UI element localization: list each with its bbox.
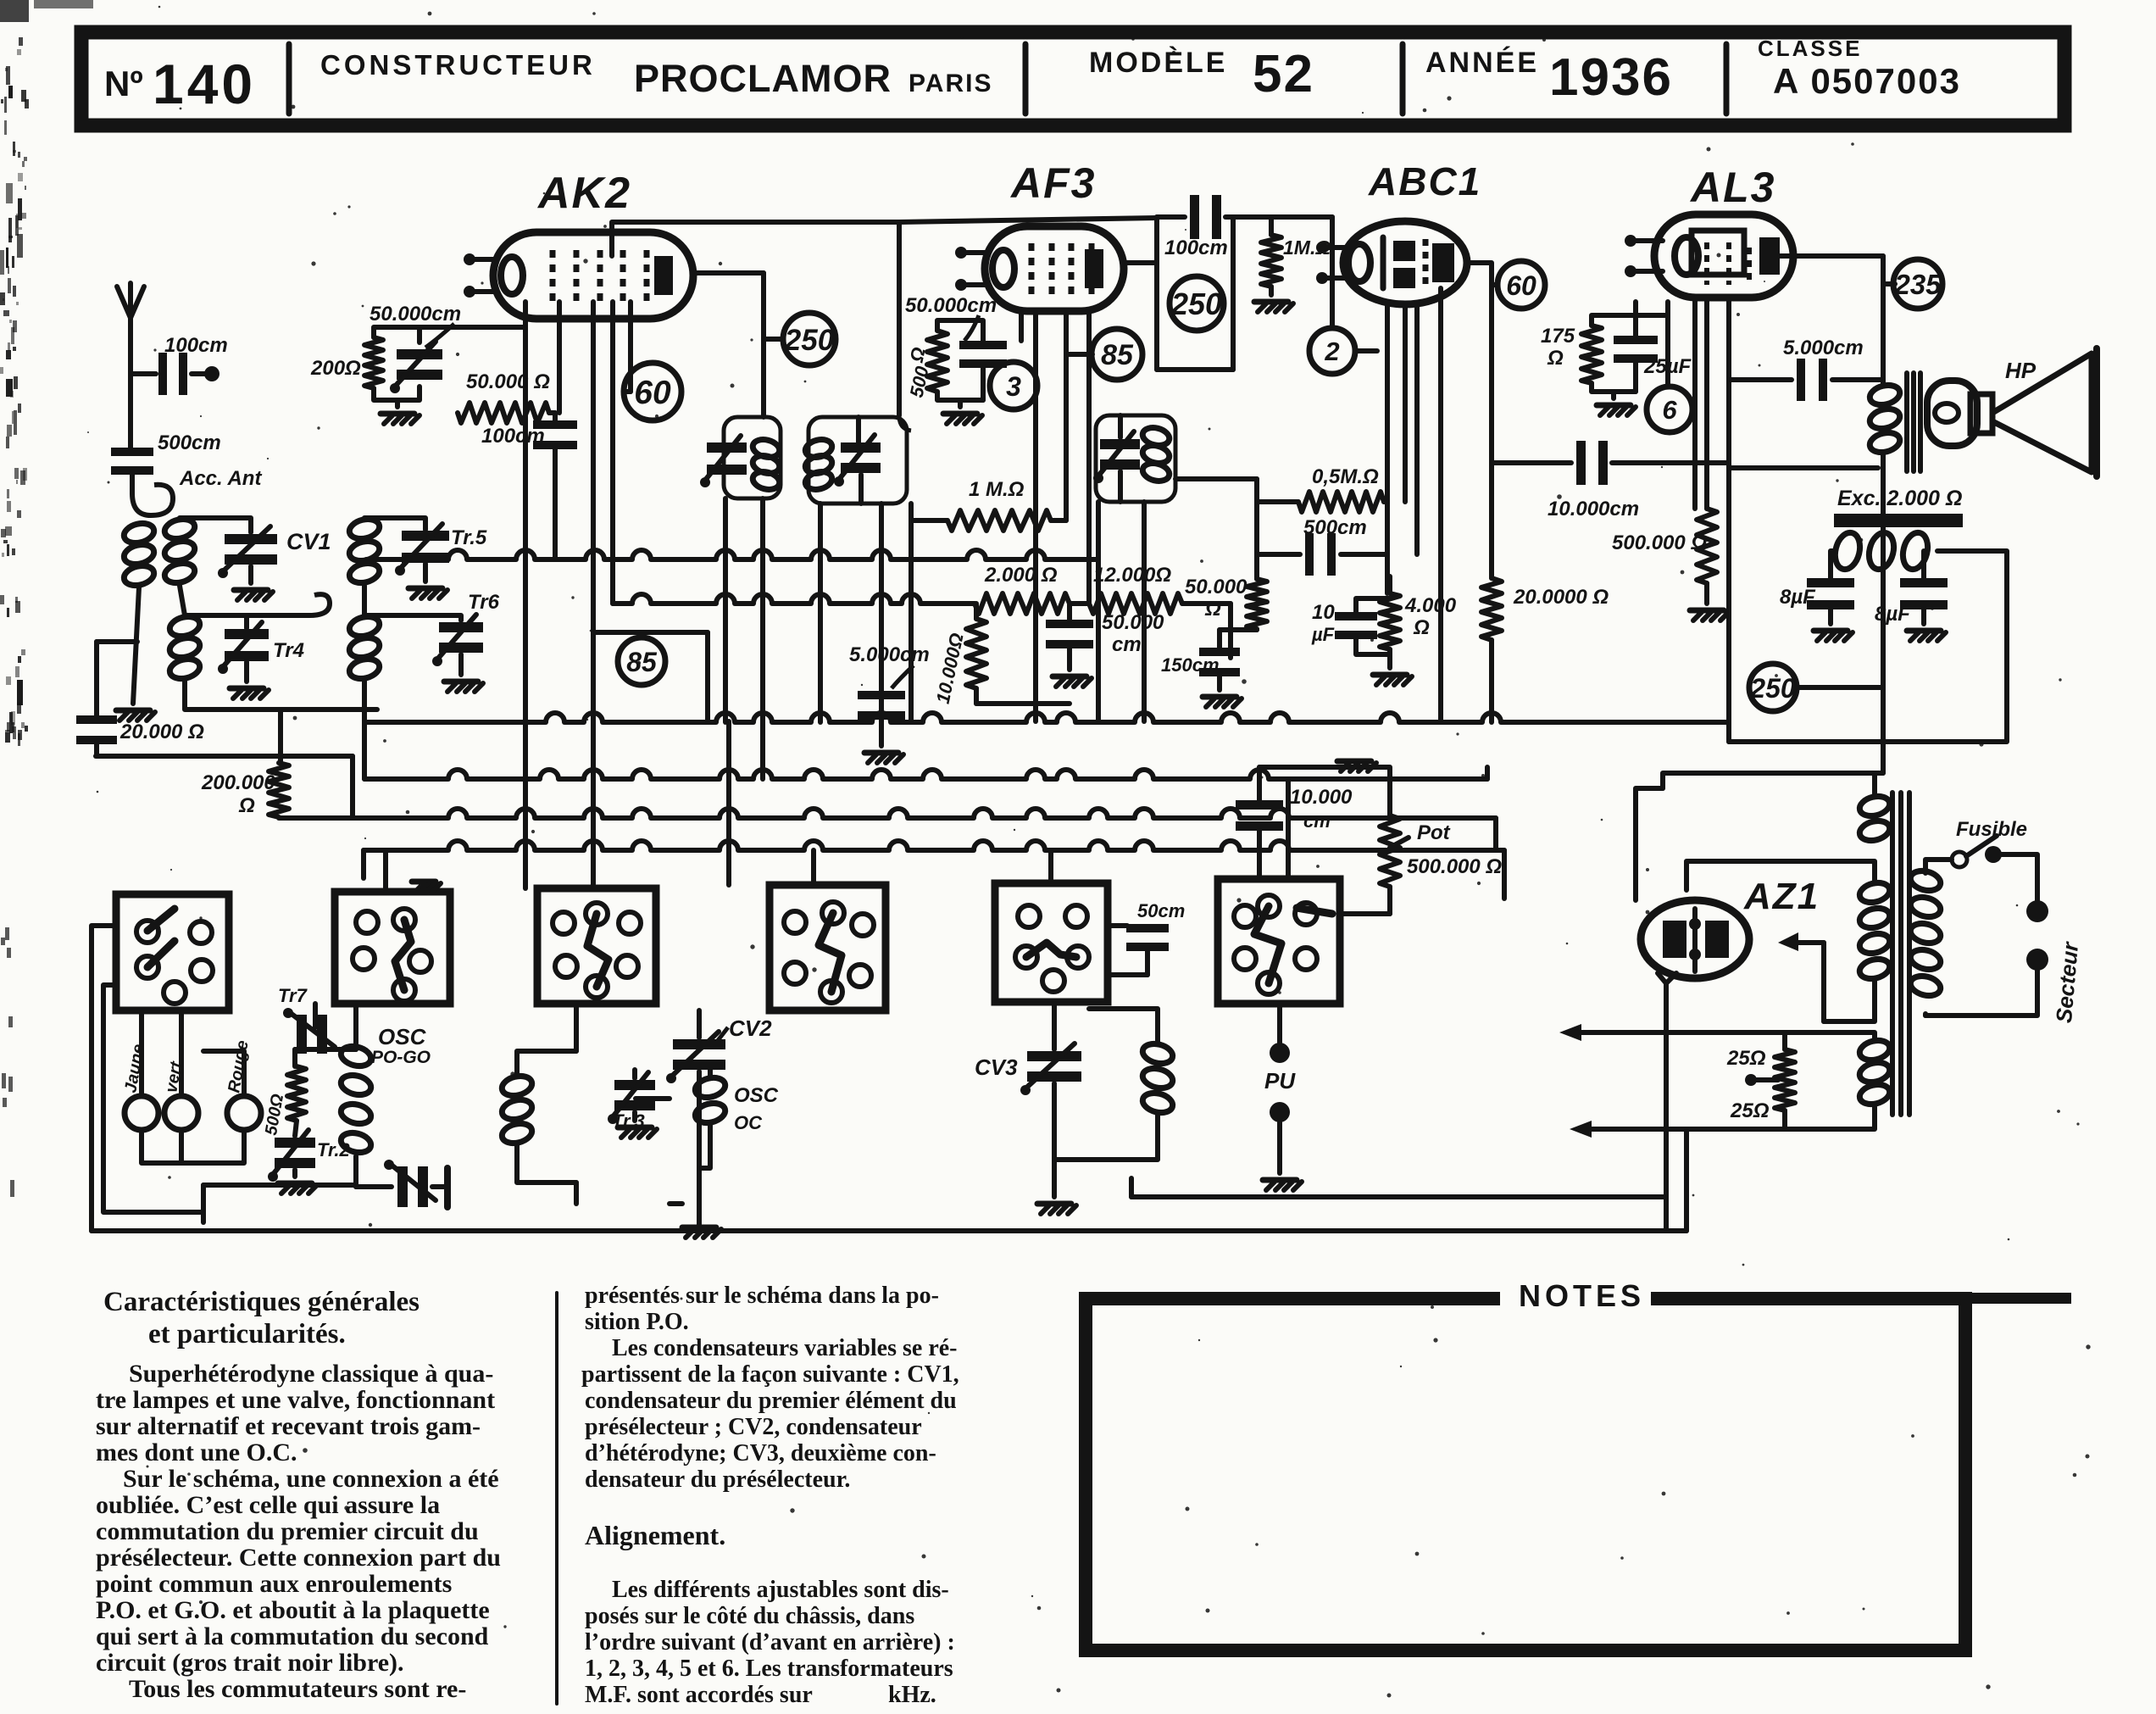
wire AF3 grid leads — [983, 310, 1089, 721]
resistor 50.000 ohm (AK2) — [458, 327, 555, 423]
field coil Exc. 2.000 ohm — [1831, 487, 1963, 578]
node 235 (AL3 plate) — [1893, 259, 1942, 309]
lamp jaune — [121, 1043, 158, 1130]
header text CLASSE A 0507003 — [1758, 36, 1961, 101]
wire hook preselector — [185, 594, 377, 763]
svg-text:20.0000 Ω: 20.0000 Ω — [1513, 586, 1609, 609]
svg-text:partissent de la façon suivant: partissent de la façon suivante : CV1, — [581, 1361, 959, 1388]
svg-text:OC: OC — [734, 1112, 763, 1133]
IF transformer 2 box — [808, 417, 907, 504]
svg-text:PU: PU — [1264, 1068, 1296, 1094]
NOTES box — [1086, 1287, 2071, 1650]
tube AZ1 label — [1743, 876, 1820, 917]
wire AK2 top plate loop — [612, 218, 1157, 722]
speaker HP — [1927, 348, 2097, 476]
pickup PU — [1263, 1004, 1302, 1190]
mains plug Secteur — [1925, 900, 2083, 1024]
svg-text:140: 140 — [153, 53, 256, 115]
trimmer Tr3 — [608, 1070, 699, 1138]
svg-text:10: 10 — [1312, 601, 1335, 624]
wire AL3 cathode — [1636, 302, 1670, 387]
wire osc switch risers — [295, 1004, 394, 1066]
resistor 4.000 ohm — [1373, 576, 1457, 685]
svg-text:Ω: Ω — [1413, 616, 1430, 639]
tube AZ1 — [1641, 900, 1749, 983]
wire verticals to switches — [153, 721, 1288, 894]
svg-text:1 M.Ω: 1 M.Ω — [969, 478, 1025, 501]
wire field coil returns — [1729, 551, 2007, 742]
wire transformer winding2 to AZ1 — [1686, 861, 1875, 1021]
header divider lines — [289, 44, 1726, 114]
capacitor 5.000cm (tone) — [1729, 337, 1883, 401]
svg-text:Les condensateurs variables se: Les condensateurs variables se ré- — [612, 1335, 958, 1361]
svg-text:M.F. sont accordés sur: M.F. sont accordés sur — [585, 1682, 813, 1708]
svg-text:50.000 Ω: 50.000 Ω — [466, 370, 550, 393]
wire box Tr6 — [364, 615, 461, 721]
svg-text:présélecteur. Cette connexion: présélecteur. Cette connexion part du — [96, 1544, 501, 1572]
svg-text:Les différents ajustables sont: Les différents ajustables sont dis- — [612, 1577, 949, 1603]
trimmer Tr2 — [268, 1121, 351, 1194]
svg-text:CV2: CV2 — [729, 1016, 772, 1041]
IF transformer 1 box — [724, 417, 781, 498]
svg-text:et particularités.: et particularités. — [148, 1319, 346, 1349]
switch S2 (box) — [335, 892, 450, 1004]
svg-text:85: 85 — [626, 647, 658, 677]
border frame: header box — [81, 32, 2064, 125]
box AF3 plate — [1157, 217, 1233, 370]
trimmer Tr4 — [218, 622, 304, 698]
svg-text:5.000cm: 5.000cm — [1783, 337, 1864, 359]
text column 2 — [581, 1283, 959, 1708]
column divider — [555, 1293, 558, 1704]
svg-text:50.000: 50.000 — [1185, 576, 1247, 598]
wire AZ1 cathode down — [1666, 958, 1686, 1231]
svg-text:présélecteur ; CV2, con: présélecteur ; CV2, condensateur — [585, 1414, 922, 1440]
svg-text:0,5M.Ω: 0,5M.Ω — [1312, 465, 1379, 488]
svg-text:Exc. 2.000 Ω: Exc. 2.000 Ω — [1837, 487, 1962, 510]
wire output transformer bottom — [1729, 465, 1878, 470]
power transformer primary — [1909, 868, 1942, 999]
resistor 12.000 ohm — [1089, 564, 1182, 614]
node 85 (AK2 osc) — [618, 632, 665, 685]
svg-text:50.000: 50.000 — [1102, 611, 1164, 634]
svg-text:52: 52 — [1253, 45, 1314, 103]
capacitor 150cm — [1161, 630, 1242, 707]
svg-text:50.000cm: 50.000cm — [905, 294, 997, 317]
IF transformer 3 trimmer — [1093, 431, 1140, 483]
resistor 10.000 ohm (vertical) — [932, 604, 1070, 705]
wire bottom left frame — [92, 926, 1131, 1231]
ground above switch S2 — [412, 882, 441, 892]
svg-text:d’hétérodyne; CV3, deuxièm: d’hétérodyne; CV3, deuxième con- — [585, 1440, 936, 1466]
capacitor 100cm (antenna) — [131, 334, 228, 395]
wire rail 746 (85 hanger) — [593, 632, 708, 722]
svg-text:PROCLAMOR: PROCLAMOR — [634, 57, 892, 100]
svg-text:Tr.5: Tr.5 — [451, 526, 487, 549]
svg-text:1936: 1936 — [1549, 48, 1673, 107]
svg-text:oubliée. C’est celle qui assur: oubliée. C’est celle qui assure la — [96, 1491, 440, 1519]
capacitor 50cm — [1108, 900, 1185, 975]
node 3 (AF3 grid) — [990, 362, 1037, 409]
wire heater winding connects — [1559, 1024, 1875, 1138]
coil OSC PO-GO — [339, 1024, 431, 1155]
wire mid risers — [576, 1004, 825, 1204]
node 250 (AF3 plate) — [1170, 276, 1224, 331]
wire AL3 plate to output transformer — [1780, 256, 1895, 383]
node 85 (AF3 screen) — [1092, 329, 1142, 380]
svg-text:Ω: Ω — [1547, 347, 1564, 370]
svg-text:cm: cm — [1303, 810, 1331, 832]
coil RF transformer A — [347, 516, 381, 586]
capacitor 500cm (ABC1) — [1257, 516, 1387, 576]
tube ABC1 label — [1368, 159, 1481, 203]
NOTES heading — [1519, 1278, 1645, 1313]
capacitor 500cm (antenna) — [111, 431, 221, 493]
svg-text:Ω: Ω — [238, 794, 255, 817]
svg-text:CONSTRUCTEUR: CONSTRUCTEUR — [320, 49, 596, 81]
label Acc. Ant — [132, 467, 262, 515]
svg-text:NOTES: NOTES — [1519, 1278, 1645, 1313]
svg-text:HP: HP — [2005, 358, 2037, 383]
antenna — [117, 283, 144, 449]
svg-text:Tous les commutateurs sont re-: Tous les commutateurs sont re- — [129, 1675, 466, 1703]
svg-text:175: 175 — [1541, 325, 1575, 348]
capacitor 10.000cm (PU) — [1236, 767, 1354, 879]
svg-text:CV1: CV1 — [286, 529, 331, 554]
node 60 (ABC1 plate) — [1498, 261, 1545, 309]
resistor 0,5M ohm — [1175, 465, 1387, 579]
svg-text:l’ordre suivant (d’avant en ar: l’ordre suivant (d’avant en arrière) : — [585, 1629, 955, 1656]
switch S6 (box) — [1218, 879, 1340, 1004]
header text N. 140 — [104, 53, 256, 115]
resistor 1M ohm (AF3 top) — [1233, 217, 1332, 328]
switch S1 (box) — [116, 894, 229, 1010]
capacitor 8 microF (1) — [1780, 578, 1854, 641]
coil preselector G.O. — [168, 614, 202, 682]
svg-text:25µF: 25µF — [1643, 355, 1692, 378]
svg-text:500.000 Ω: 500.000 Ω — [1407, 855, 1502, 878]
svg-text:Tr6: Tr6 — [468, 591, 500, 614]
node 250 (AK2 plate) — [783, 313, 836, 365]
svg-text:25Ω: 25Ω — [1730, 1099, 1770, 1122]
IF transformer 2 trimmer — [834, 435, 881, 487]
power transformer core — [1892, 793, 1909, 1115]
wire ABC1 leads down — [1355, 288, 1441, 722]
svg-text:OSC: OSC — [734, 1084, 779, 1107]
capacitor 50.000cm (AF3 plate) — [1046, 604, 1164, 687]
svg-text:mes dont une O.C.: mes dont une O.C. — [96, 1439, 297, 1466]
svg-text:condensateur du premier élémen: condensateur du premier élément du — [585, 1388, 957, 1414]
variable capacitor CV3 — [975, 1004, 1081, 1214]
svg-text:P.O. et G.O. et aboutit à la p: P.O. et G.O. et aboutit à la plaquette — [96, 1596, 490, 1624]
switch S4 (box) — [770, 885, 886, 1010]
svg-text:point commun aux enroulements: point commun aux enroulements — [96, 1570, 452, 1598]
wire AF3 anode right — [1124, 260, 1157, 265]
svg-text:200Ω: 200Ω — [310, 357, 361, 380]
svg-text:Pot: Pot — [1417, 821, 1451, 844]
svg-text:500.000 Ω: 500.000 Ω — [1612, 531, 1707, 554]
svg-text:250: 250 — [784, 324, 835, 357]
wire bottom bus 1 — [1131, 1194, 1666, 1199]
tube AF3 — [955, 226, 1124, 311]
node 250 (HT) — [1749, 664, 1797, 711]
svg-text:CV3: CV3 — [975, 1055, 1018, 1080]
svg-text:50cm: 50cm — [1137, 900, 1185, 921]
coil preselector CV3 — [1054, 1009, 1175, 1160]
power transformer HT winding 2 — [1858, 880, 1892, 982]
capacitor osc padder — [356, 1156, 447, 1207]
svg-text:CLASSE: CLASSE — [1758, 36, 1862, 61]
svg-text:AF3: AF3 — [1009, 159, 1096, 207]
svg-text:circuit (gros trait noir libre: circuit (gros trait noir libre). — [96, 1649, 404, 1677]
svg-text:4.000: 4.000 — [1404, 594, 1457, 617]
wire ABC1 plate to 60 — [1466, 263, 1497, 463]
svg-text:AZ1: AZ1 — [1743, 876, 1820, 917]
svg-text:2: 2 — [1324, 337, 1339, 366]
svg-text:200.000: 200.000 — [201, 771, 275, 794]
capacitor 10.000cm (coupling) — [1492, 441, 1729, 563]
svg-text:AK2: AK2 — [536, 169, 631, 218]
svg-text:posés sur le côté du châssis,: posés sur le côté du châssis, dans — [585, 1603, 914, 1629]
switch S3 (box) — [537, 888, 656, 1004]
tube AL3 label — [1689, 164, 1775, 211]
capacitor 100cm (AF3 top) — [1157, 195, 1233, 259]
wire AK2 anode to IF1 — [693, 273, 783, 417]
svg-text:5.000cm: 5.000cm — [849, 643, 930, 666]
resistor 20.000 ohm (detector load) — [1481, 463, 1609, 722]
wire IF3 verticals — [1098, 471, 1144, 721]
svg-text:Tr7: Tr7 — [278, 985, 308, 1006]
switch S5 (box) — [995, 883, 1108, 1002]
resistor 50.000 ohm (ABC1) — [1185, 576, 1267, 630]
svg-text:235: 235 — [1893, 269, 1942, 300]
svg-text:kHz.: kHz. — [888, 1682, 936, 1708]
svg-text:µF: µF — [1311, 624, 1335, 645]
IF transformer 1 coil — [751, 437, 781, 492]
svg-text:cm: cm — [1112, 633, 1142, 656]
resistor 200 ohm — [310, 327, 525, 424]
resistor 500 ohm (AF3) — [905, 320, 983, 424]
coil RF transformer B — [347, 614, 381, 682]
wire osc frame — [203, 1185, 356, 1222]
svg-text:2.000 Ω: 2.000 Ω — [984, 564, 1058, 587]
fuse fusible — [1925, 818, 2037, 900]
wire box CV1 — [180, 518, 251, 615]
svg-text:50.000cm: 50.000cm — [370, 303, 461, 326]
text column 1 — [96, 1287, 501, 1703]
svg-text:12.000Ω: 12.000Ω — [1093, 564, 1171, 587]
resistor 175 ohm — [1541, 315, 1636, 415]
svg-text:85: 85 — [1101, 339, 1134, 371]
svg-text:250: 250 — [1749, 673, 1796, 704]
tube AK2 — [464, 232, 693, 319]
svg-text:60: 60 — [1506, 270, 1536, 301]
lamp rouge — [225, 1039, 261, 1130]
potentiometer 500.000 ohm (volume) — [1337, 761, 1502, 914]
wire AK2 grid leads — [525, 302, 631, 818]
svg-text:Tr.2: Tr.2 — [317, 1139, 351, 1160]
capacitor 10 microF — [1311, 598, 1390, 654]
capacitor 100cm (AK2 cathode) — [481, 413, 577, 559]
svg-text:OSC: OSC — [378, 1024, 427, 1049]
svg-text:Tr4: Tr4 — [273, 639, 304, 662]
svg-text:100cm: 100cm — [164, 334, 228, 357]
lamp vert — [162, 1060, 198, 1130]
variable capacitor CV2 — [666, 1010, 772, 1204]
wire transformer top loop — [1636, 773, 1883, 900]
capacitor 50.000cm (AK2 grid) — [370, 303, 461, 393]
resistor 2.000 ohm — [975, 564, 1070, 614]
wire bus row2 (AVC rail) — [364, 721, 1487, 779]
wire IF1 verticals — [725, 498, 881, 779]
wire AL3 grid — [1695, 298, 1729, 509]
capacitor 20.000 ohm (left) — [76, 642, 204, 756]
trimmer Tr6 — [432, 591, 500, 692]
wire bus row1 (85V rail) — [364, 713, 1729, 722]
tube ABC1 — [1316, 221, 1467, 304]
node 6 (AL3 cathode) — [1647, 315, 1692, 432]
svg-text:Alignement.: Alignement. — [585, 1520, 725, 1550]
svg-text:1M.Ω: 1M.Ω — [1283, 237, 1331, 259]
svg-text:250: 250 — [1170, 287, 1222, 321]
resistor 200.000 ohm — [201, 763, 289, 817]
svg-text:60: 60 — [634, 375, 671, 411]
IF transformer 3 coil — [1141, 425, 1171, 483]
header text CONSTRUCTEUR — [320, 49, 596, 81]
resistor 25 ohm hum pot — [1726, 1032, 1875, 1122]
IF transformer 1 trimmer — [700, 436, 747, 487]
coil preselector P.O. — [163, 516, 197, 586]
capacitor 8 microF (2) — [1875, 578, 1948, 641]
svg-text:Caractéristiques générales: Caractéristiques générales — [103, 1287, 420, 1317]
resistor 1M ohm (AF3 grid leak) — [911, 478, 1066, 531]
trimmer CV1 — [218, 526, 331, 600]
svg-text:sur alternatif et recevant tro: sur alternatif et recevant trois gam- — [96, 1412, 481, 1440]
svg-text:3: 3 — [1006, 371, 1021, 402]
ground antenna coil — [116, 710, 155, 721]
svg-text:Superhétérodyne classique à qu: Superhétérodyne classique à qua- — [129, 1360, 493, 1388]
svg-text:10.000: 10.000 — [1290, 786, 1353, 809]
svg-text:sition P.O.: sition P.O. — [585, 1309, 689, 1335]
ground osc — [682, 1204, 721, 1238]
node 60 (AK2 screen) — [624, 363, 681, 420]
wire box Tr5 — [364, 518, 425, 615]
capacitor 5.000cm — [849, 643, 930, 763]
IF transformer 3 box — [1096, 415, 1175, 502]
svg-text:commutation du premier circuit: commutation du premier circuit du — [96, 1517, 479, 1545]
svg-text:tre lampes et une valve, fonct: tre lampes et une valve, fonctionnant — [96, 1386, 495, 1414]
wire 85 node lead — [1066, 352, 1092, 357]
svg-text:6: 6 — [1662, 395, 1677, 425]
power transformer heater winding — [1858, 1038, 1892, 1107]
trimmer Tr5 — [395, 524, 487, 598]
svg-text:500cm: 500cm — [158, 431, 221, 454]
wire HT rail right — [1726, 380, 1731, 722]
svg-text:ABC1: ABC1 — [1368, 159, 1481, 203]
svg-text:25Ω: 25Ω — [1726, 1047, 1766, 1070]
output transformer core — [1907, 373, 1920, 471]
svg-text:AL3: AL3 — [1689, 164, 1775, 211]
svg-text:PO-GO: PO-GO — [371, 1048, 431, 1067]
svg-text:Nº: Nº — [104, 64, 143, 103]
svg-text:Sur le schéma, une connexion a: Sur le schéma, une connexion a été — [123, 1465, 499, 1493]
header text ANNEE 1936 — [1425, 47, 1673, 107]
coil osc tank — [500, 1051, 576, 1183]
svg-text:présentés sur le schéma dans l: présentés sur le schéma dans la po- — [585, 1283, 939, 1309]
svg-text:MODÈLE: MODÈLE — [1089, 47, 1227, 79]
wire lamps — [142, 1010, 244, 1163]
tube AF3 label — [1009, 159, 1096, 207]
resistor 500 ohm (osc) — [262, 1066, 306, 1137]
svg-text:A 0507003: A 0507003 — [1773, 61, 1961, 101]
wire bottom bus 2 — [92, 1129, 1686, 1231]
svg-text:ANNÉE: ANNÉE — [1425, 47, 1539, 79]
tube AL3 — [1625, 214, 1793, 298]
tube AK2 label — [536, 169, 631, 218]
IF transformer 2 coil — [803, 437, 834, 492]
coil antenna primary — [122, 504, 156, 704]
svg-text:densateur du présélecteur.: densateur du présélecteur. — [585, 1466, 850, 1493]
header text PROCLAMOR PARIS — [634, 57, 992, 100]
coil OSC OC — [693, 1070, 779, 1168]
output transformer primary — [1868, 382, 1902, 455]
svg-text:10.000cm: 10.000cm — [1548, 498, 1639, 520]
svg-text:Acc. Ant: Acc. Ant — [179, 467, 262, 490]
svg-text:qui sert à la commutation du s: qui sert à la commutation du second — [96, 1622, 489, 1650]
svg-text:1, 2, 3, 4, 5 et 6. Les transf: 1, 2, 3, 4, 5 et 6. Les transformateurs — [585, 1656, 953, 1682]
node 2 (ABC1 grid) — [1309, 328, 1355, 374]
svg-text:PARIS: PARIS — [909, 70, 992, 97]
wire bus row4 (heater rail) — [364, 841, 1504, 899]
power transformer HT winding — [1858, 793, 1892, 843]
capacitor 50.000cm (AF3 grid) — [905, 294, 1007, 368]
wire bus row3 (cathode rail) — [96, 756, 1496, 848]
wire rail 712 (screen) — [613, 302, 1231, 658]
wire rail 660 (AVC) — [366, 550, 1098, 559]
capacitor 25 microF — [1614, 302, 1692, 392]
svg-text:100cm: 100cm — [1164, 237, 1228, 259]
trimmer Tr7 — [278, 985, 335, 1054]
wire output to HT — [1797, 452, 1883, 773]
header text MODELE 52 — [1089, 45, 1314, 103]
svg-text:20.000 Ω: 20.000 Ω — [119, 721, 204, 743]
resistor 500.000 ohm (AL3 grid) — [1612, 463, 1729, 620]
